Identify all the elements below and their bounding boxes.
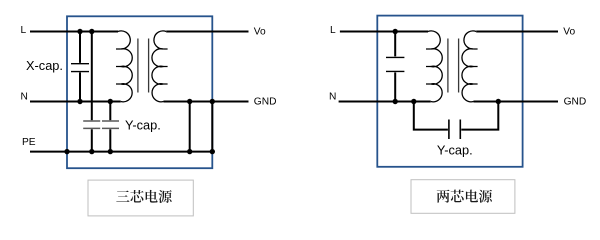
label N (left) — [21, 92, 28, 103]
label L (right) — [330, 25, 336, 36]
wire N (left input to choke T1 bottom) — [30, 101, 121, 103]
capacitor X-cap (between L and N) — [71, 32, 89, 102]
svg-text:L: L — [21, 25, 27, 36]
common-mode choke T2 right winding — [462, 31, 478, 102]
svg-text:GND: GND — [254, 96, 277, 107]
common-mode choke T2 left winding — [426, 31, 442, 102]
choke T1 core — [138, 39, 149, 93]
wire N (right input to choke T2 bottom) — [339, 101, 431, 103]
svg-text:N: N — [21, 92, 28, 103]
label Y-cap. (right circuit) — [437, 142, 473, 157]
wire Vo (right output top) — [476, 31, 558, 33]
wire GND-to-PE drop 2 on shield edge (left) — [211, 102, 213, 152]
svg-text:N: N — [329, 92, 336, 103]
caption box 两芯电源 (two-wire power) — [411, 180, 515, 214]
svg-text:Vo: Vo — [254, 26, 266, 37]
choke T2 core — [448, 39, 459, 93]
svg-text:Vo: Vo — [563, 26, 575, 37]
capacitor X-cap (right, between L and N) — [386, 32, 404, 102]
svg-text:Y-cap.: Y-cap. — [437, 142, 473, 157]
junction nodes (left circuit) — [64, 29, 215, 155]
wire GND-to-PE drop 1 (left) — [189, 102, 191, 152]
svg-text:Y-cap.: Y-cap. — [125, 117, 161, 132]
caption box 三芯电源 (three-wire power) — [88, 180, 193, 216]
wire L (left input to choke T1) — [30, 31, 118, 33]
common-mode choke T1 right winding — [152, 31, 168, 102]
shield box (left filter enclosure) — [67, 16, 212, 168]
label N (right) — [329, 92, 336, 103]
wire GND (right output bottom) — [474, 101, 559, 103]
capacitor Y-cap CY1 (L to PE) — [83, 32, 100, 152]
wire PE (ground/earth rail) — [30, 151, 212, 153]
label GND (right) — [564, 96, 587, 107]
svg-text:X-cap.: X-cap. — [26, 58, 63, 73]
label X-cap. — [26, 58, 63, 73]
capacitor Y-cap (right, between N and GND) — [414, 102, 499, 140]
svg-text:L: L — [330, 25, 336, 36]
label Vo (left) — [254, 26, 266, 37]
wire Vo (left output top) — [166, 31, 248, 33]
label L (left) — [21, 25, 27, 36]
capacitor Y-cap CY2 (N to PE) — [102, 102, 119, 152]
wire GND (left output bottom) — [164, 101, 249, 103]
wire L (right input to choke T2) — [340, 31, 428, 33]
label GND (left) — [254, 96, 277, 107]
label Y-cap. (left circuit) — [125, 117, 161, 132]
common-mode choke T1 left winding — [116, 31, 132, 102]
label PE — [22, 137, 36, 148]
shield box (right filter enclosure) — [377, 16, 522, 167]
junction nodes (right circuit) — [393, 29, 501, 104]
label Vo (right) — [563, 26, 575, 37]
svg-text:GND: GND — [564, 96, 587, 107]
svg-text:PE: PE — [22, 137, 36, 148]
